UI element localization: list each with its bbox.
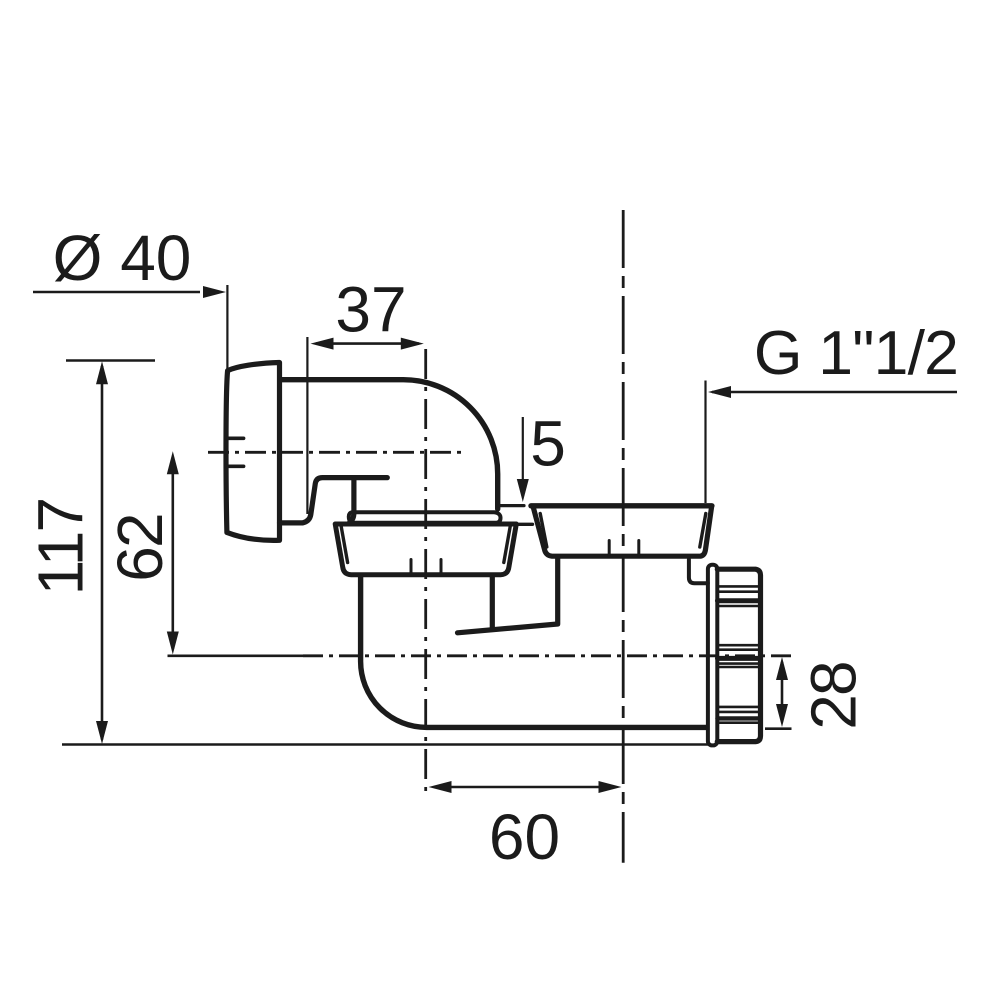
arrowhead 117 up: [96, 361, 108, 384]
arrowhead G left: [708, 386, 731, 398]
flange tick upper: [227, 436, 244, 440]
trap inner wall: [490, 576, 495, 629]
dim 117 shaft: [101, 366, 104, 740]
dim 62 bottom tick: [168, 654, 304, 657]
dim 5 leader: [522, 417, 524, 480]
internal partition slant: [458, 557, 558, 633]
centerline horizontal bottom axis: [303, 654, 794, 657]
centerline vertical cup axis: [622, 210, 625, 863]
neck bottom line: [508, 523, 533, 526]
svg-text:62: 62: [104, 514, 176, 582]
dim G extension line: [704, 381, 706, 504]
outlet nut knurl band top: [718, 586, 761, 606]
nut knurl tick left: [410, 560, 413, 575]
cup to outlet bracket: [689, 560, 708, 584]
arrowhead 28 up: [776, 657, 788, 680]
nut knurl tick right: [440, 560, 443, 575]
wall flange body: [226, 363, 280, 541]
cup knurl tick left: [608, 541, 611, 557]
dim 117 top tick: [66, 359, 155, 362]
svg-text:Ø 40: Ø 40: [53, 222, 192, 294]
centerline vertical trap axis: [424, 349, 427, 791]
dim 28 shaft: [781, 662, 784, 721]
svg-text:60: 60: [489, 801, 560, 873]
arrowhead 60 left: [429, 781, 452, 793]
arrowhead 37 left: [311, 338, 334, 350]
arrowhead 117 down: [96, 721, 108, 744]
arrowhead 60 right: [599, 781, 622, 793]
cup chamfer right: [700, 514, 706, 548]
union nut (vertical axis): [335, 524, 516, 575]
outlet nut knurl band middle: [718, 645, 761, 667]
dim 62 shaft: [172, 458, 175, 649]
washer band under elbow: [349, 512, 501, 523]
tub cup body: [533, 507, 711, 556]
svg-text:37: 37: [335, 274, 406, 346]
cup chamfer left: [540, 514, 547, 548]
svg-text:28: 28: [798, 662, 870, 730]
flange tick lower: [227, 464, 244, 468]
sleeve ledge line: [498, 504, 524, 507]
dim 60 line: [434, 786, 616, 789]
elbow socket inner step: [280, 478, 388, 523]
arrowhead 62 down: [167, 632, 179, 655]
dim 28 bottom tick: [765, 727, 792, 730]
svg-text:G 1"1/2: G 1"1/2: [754, 318, 958, 388]
dim 37 line: [316, 342, 419, 345]
outlet nut knurl band bottom: [718, 707, 761, 723]
dim Ø40 leader line: [33, 291, 200, 294]
arrowhead 28 down: [776, 704, 788, 727]
svg-text:117: 117: [25, 499, 97, 596]
nut chamfer left: [341, 527, 347, 563]
nut chamfer right: [504, 527, 510, 563]
tub cup top edge: [531, 503, 712, 508]
cup knurl tick right: [637, 541, 640, 557]
dim G line: [712, 391, 957, 394]
outlet nut flange ring: [708, 565, 717, 746]
elbow inner wall drop: [350, 480, 354, 523]
dim 37 extension line: [306, 337, 308, 514]
dim Ø40 extension vertical: [226, 285, 228, 369]
svg-text:5: 5: [530, 408, 566, 480]
dim 117 bottom tick long: [62, 743, 711, 746]
trap body outer wall and bottom run: [361, 576, 707, 727]
arrowhead 5 down: [517, 479, 529, 502]
arrowhead 62 up: [167, 451, 179, 474]
centerline horizontal top axis: [208, 451, 464, 454]
arrowhead 37 right: [401, 338, 424, 350]
arrowhead Ø40 right: [203, 286, 226, 298]
outlet nut body: [717, 569, 760, 741]
elbow outer profile: [282, 380, 498, 509]
